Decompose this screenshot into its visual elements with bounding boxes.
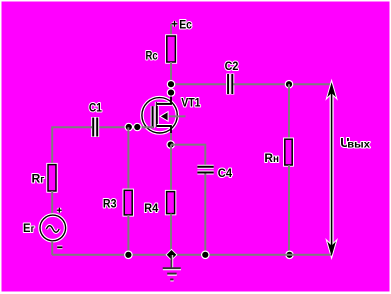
wire Rg bottom to source Eg bbox=[51, 191, 53, 216]
wire junction down to Rn bbox=[288, 84, 290, 139]
wire drain node to C2 bbox=[171, 83, 227, 85]
drain lead bbox=[157, 102, 172, 106]
svg-text:C4: C4 bbox=[218, 166, 232, 180]
output arrow Uout bbox=[327, 82, 370, 256]
wire C4 bottom to rail bbox=[204, 174, 206, 255]
wire supply vertical to Rc bbox=[170, 24, 172, 37]
node Rn bottom junction bbox=[285, 251, 294, 260]
wire R3 bottom to rail bbox=[127, 215, 129, 255]
substrate lead with arrow bbox=[167, 115, 186, 117]
node source junction bbox=[166, 140, 175, 149]
svg-text:вых: вых bbox=[347, 139, 370, 150]
svg-text:Rн: Rн bbox=[264, 151, 279, 165]
capacitor C4 bbox=[197, 166, 232, 180]
wire Eg bottom to rail bbox=[51, 241, 53, 255]
svg-text:VT1: VT1 bbox=[181, 95, 201, 109]
svg-text:C2: C2 bbox=[225, 59, 239, 73]
source Eg bbox=[23, 208, 66, 248]
svg-text:Ec: Ec bbox=[179, 18, 192, 32]
svg-text:Rг: Rг bbox=[32, 171, 45, 185]
resistor Rc bbox=[146, 36, 176, 62]
plus mark bbox=[57, 209, 62, 212]
svg-text:R3: R3 bbox=[103, 196, 117, 210]
source lead bbox=[157, 124, 172, 128]
ground node (diamond junction) bbox=[166, 249, 178, 261]
wire source node to C4 bbox=[171, 145, 205, 166]
node drain junction (two dots) bbox=[167, 80, 176, 97]
node C4 rail junction bbox=[201, 251, 210, 260]
resistor R3 bbox=[103, 190, 132, 215]
bottom rail wire bbox=[52, 254, 331, 256]
resistor R4 bbox=[144, 192, 175, 215]
svg-text:C1: C1 bbox=[89, 101, 102, 115]
gate bar bbox=[151, 106, 155, 128]
channel bar bbox=[155, 102, 159, 127]
svg-text:Rc: Rc bbox=[146, 48, 158, 62]
minus mark bbox=[57, 246, 62, 250]
wire C2 to output arrow bbox=[233, 83, 331, 85]
ground symbol bbox=[163, 255, 181, 281]
wire input branch down to Rg bbox=[51, 127, 53, 165]
node R3 rail junction bbox=[124, 251, 133, 260]
wire source node down to R4 bbox=[170, 145, 172, 192]
resistor Rg bbox=[32, 165, 57, 191]
svg-text:Eг: Eг bbox=[23, 221, 35, 235]
wire R4 bottom to ground node bbox=[170, 214, 172, 255]
transistor VT1 bbox=[142, 95, 201, 134]
wire gate to transistor bbox=[98, 126, 153, 128]
node C2 / Rn junction bbox=[285, 80, 294, 89]
+Ec supply terminal bbox=[172, 18, 193, 32]
wire Rc bottom to drain node bbox=[170, 62, 172, 98]
wire C1 left to input branch bbox=[51, 126, 92, 128]
resistor Rn bbox=[264, 139, 292, 165]
capacitor C2 bbox=[225, 59, 239, 94]
wire gate node down to R3 bbox=[127, 127, 129, 190]
wire source down to node bbox=[170, 133, 172, 145]
node gate junction (two dots) bbox=[125, 123, 142, 132]
wire Rn bottom to bottom rail bbox=[288, 165, 290, 255]
svg-text:R4: R4 bbox=[144, 201, 158, 215]
capacitor C1 bbox=[89, 101, 102, 138]
